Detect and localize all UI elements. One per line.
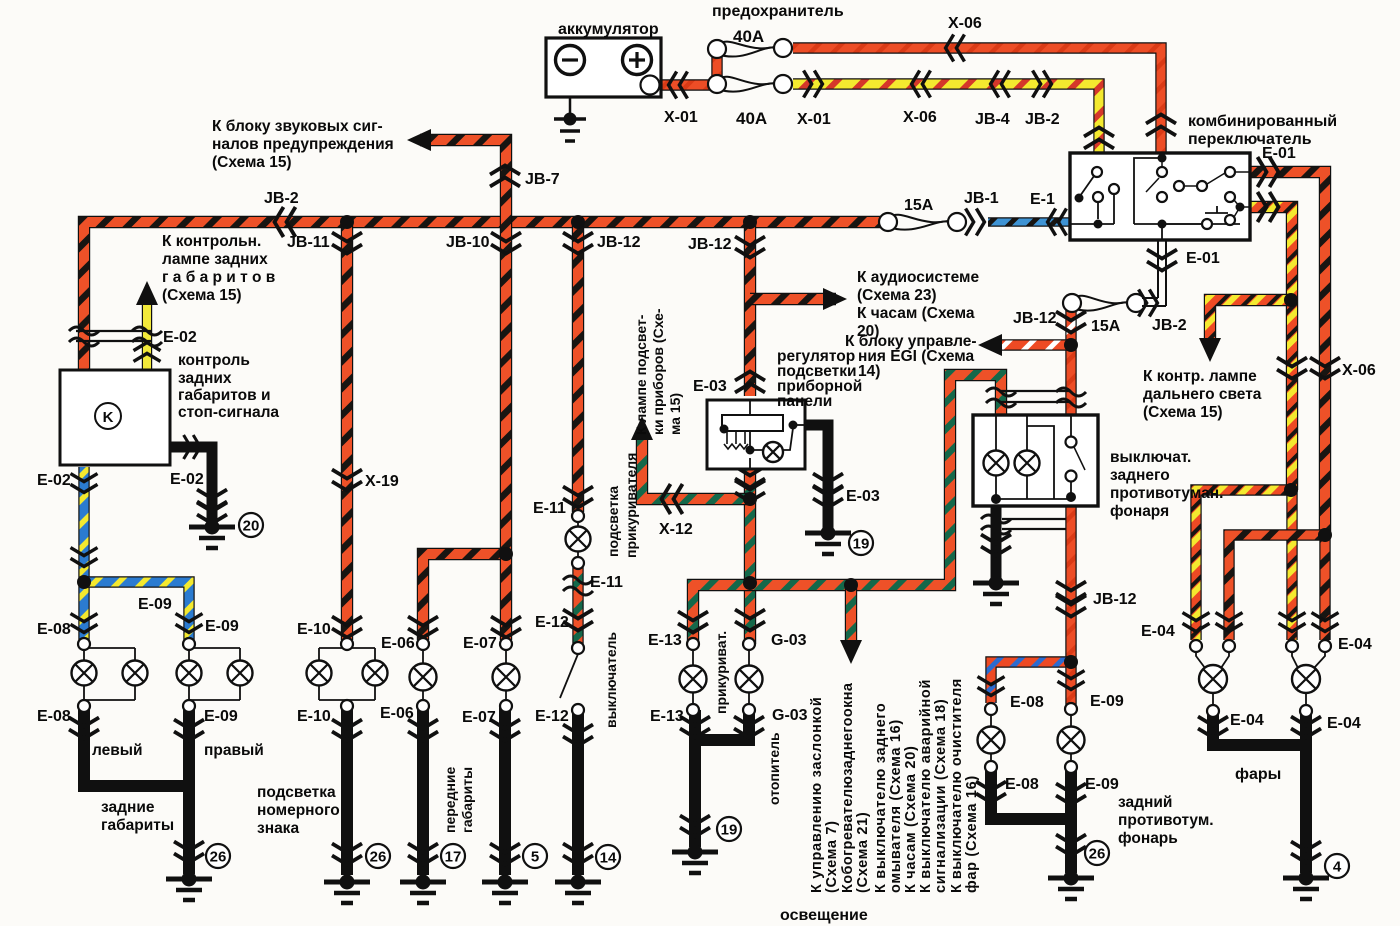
svg-text:знака: знака	[257, 820, 299, 837]
svg-text:К часам (Схема 20): К часам (Схема 20)	[903, 746, 919, 893]
svg-text:габариты: габариты	[459, 767, 475, 833]
svg-text:JB-12: JB-12	[688, 236, 732, 253]
svg-text:E-04: E-04	[1230, 712, 1264, 729]
svg-text:JB-12: JB-12	[1093, 591, 1137, 608]
svg-text:К управлению заслонкой: К управлению заслонкой	[809, 696, 825, 893]
svg-text:JB-2: JB-2	[1025, 111, 1060, 128]
svg-text:E-08: E-08	[37, 621, 71, 638]
svg-text:(Схема 15): (Схема 15)	[1143, 404, 1223, 421]
svg-text:(Схема 7): (Схема 7)	[824, 820, 840, 893]
svg-text:налов предупреждения: налов предупреждения	[212, 136, 394, 153]
svg-text:дальнего света: дальнего света	[1143, 386, 1262, 403]
svg-text:E-09: E-09	[1090, 693, 1124, 710]
svg-text:фары: фары	[1235, 766, 1281, 783]
svg-text:К выключателю аварийной: К выключателю аварийной	[918, 679, 934, 893]
svg-text:E-09: E-09	[1085, 776, 1119, 793]
svg-text:выключатель: выключатель	[603, 631, 619, 728]
svg-text:(Схема 21): (Схема 21)	[855, 812, 871, 893]
svg-text:E-10: E-10	[297, 621, 331, 638]
svg-text:К контрольн.: К контрольн.	[162, 233, 261, 250]
svg-text:отопитель: отопитель	[766, 732, 782, 805]
svg-text:E-04: E-04	[1338, 636, 1372, 653]
svg-text:ки приборов (Схе-: ки приборов (Схе-	[650, 308, 666, 435]
svg-text:14: 14	[600, 850, 617, 867]
svg-text:E-12: E-12	[535, 614, 569, 631]
svg-text:К часам (Схема: К часам (Схема	[857, 305, 975, 322]
svg-text:G-03: G-03	[772, 707, 808, 724]
svg-text:E-07: E-07	[463, 635, 497, 652]
svg-text:габаритов и: габаритов и	[178, 387, 271, 404]
svg-text:противотум.: противотум.	[1118, 812, 1214, 829]
svg-text:E-03: E-03	[846, 488, 880, 505]
svg-text:освещение: освещение	[780, 907, 868, 924]
svg-text:X-01: X-01	[664, 109, 698, 126]
svg-text:задних: задних	[178, 370, 232, 387]
svg-text:К выключателю очистителя: К выключателю очистителя	[949, 678, 965, 893]
svg-text:К блоку звуковых сиг-: К блоку звуковых сиг-	[212, 118, 383, 135]
svg-text:комбинированный: комбинированный	[1188, 113, 1337, 130]
svg-text:стоп-сигнала: стоп-сигнала	[178, 404, 279, 421]
svg-text:E-08: E-08	[1010, 694, 1044, 711]
svg-text:К лампе подсвет-: К лампе подсвет-	[633, 314, 649, 435]
svg-text:26: 26	[370, 849, 387, 866]
svg-text:20: 20	[243, 518, 260, 535]
svg-text:E-01: E-01	[1262, 145, 1296, 162]
svg-text:X-19: X-19	[365, 473, 399, 490]
svg-text:E-07: E-07	[462, 709, 496, 726]
svg-text:омывателя (Схема 16): омывателя (Схема 16)	[888, 719, 904, 893]
svg-text:E-02: E-02	[37, 472, 71, 489]
svg-text:(Схема 23): (Схема 23)	[857, 287, 937, 304]
svg-text:JB-1: JB-1	[964, 190, 999, 207]
svg-text:К аудиосистеме: К аудиосистеме	[857, 269, 979, 286]
svg-text:К выключателю заднего: К выключателю заднего	[873, 703, 889, 893]
svg-text:E-09: E-09	[138, 596, 172, 613]
svg-text:заднего: заднего	[1110, 467, 1170, 484]
svg-text:40A: 40A	[736, 109, 767, 128]
svg-text:прикуривателя: прикуривателя	[623, 453, 639, 558]
svg-text:E-10: E-10	[297, 708, 331, 725]
svg-text:выключат.: выключат.	[1110, 449, 1191, 466]
svg-text:номерного: номерного	[257, 802, 340, 819]
svg-text:JB-12: JB-12	[1013, 310, 1057, 327]
svg-text:передние: передние	[442, 766, 458, 833]
svg-text:подсветка: подсветка	[257, 784, 336, 801]
svg-text:прикуриват.: прикуриват.	[713, 631, 729, 714]
svg-text:Кобогревателюзаднегоокна: Кобогревателюзаднегоокна	[840, 682, 856, 893]
svg-text:E-12: E-12	[535, 708, 569, 725]
svg-text:E-02: E-02	[163, 329, 197, 346]
svg-text:E-06: E-06	[381, 635, 415, 652]
svg-text:г а б а р и т о в: г а б а р и т о в	[162, 269, 275, 286]
svg-text:фонарь: фонарь	[1118, 830, 1178, 847]
svg-text:JB-2: JB-2	[1152, 317, 1187, 334]
svg-text:E-04: E-04	[1141, 623, 1175, 640]
svg-text:15A: 15A	[904, 197, 934, 214]
svg-text:JB-12: JB-12	[597, 234, 641, 251]
svg-text:26: 26	[1089, 846, 1106, 863]
svg-text:X-01: X-01	[797, 111, 831, 128]
svg-text:17: 17	[445, 849, 462, 866]
svg-text:19: 19	[721, 822, 738, 839]
svg-text:JB-7: JB-7	[525, 171, 560, 188]
svg-text:панели: панели	[777, 393, 832, 410]
svg-text:E-03: E-03	[693, 378, 727, 395]
svg-text:К контр. лампе: К контр. лампе	[1143, 368, 1257, 385]
svg-text:X-06: X-06	[948, 15, 982, 32]
svg-text:E-08: E-08	[1005, 776, 1039, 793]
svg-text:JB-10: JB-10	[446, 234, 490, 251]
svg-text:E-13: E-13	[650, 708, 684, 725]
svg-text:E-13: E-13	[648, 632, 682, 649]
svg-text:19: 19	[853, 536, 870, 553]
svg-text:габариты: габариты	[101, 817, 174, 834]
svg-text:противотуман.: противотуман.	[1110, 485, 1223, 502]
svg-text:X-06: X-06	[1342, 362, 1376, 379]
svg-text:E-06: E-06	[380, 705, 414, 722]
svg-text:контроль: контроль	[178, 352, 250, 369]
svg-text:15A: 15A	[1091, 318, 1121, 335]
svg-text:40A: 40A	[733, 27, 764, 46]
svg-text:E-09: E-09	[204, 708, 238, 725]
svg-text:X-06: X-06	[903, 109, 937, 126]
svg-text:левый: левый	[92, 742, 143, 759]
svg-text:E-11: E-11	[533, 500, 566, 517]
svg-text:G-03: G-03	[771, 632, 807, 649]
svg-text:4: 4	[1333, 859, 1342, 876]
svg-text:X-12: X-12	[659, 521, 693, 538]
svg-text:E-02: E-02	[170, 471, 204, 488]
svg-text:задние: задние	[101, 799, 155, 816]
svg-text:предохранитель: предохранитель	[712, 3, 844, 20]
svg-text:26: 26	[210, 849, 227, 866]
svg-text:правый: правый	[204, 742, 264, 759]
svg-text:ма 15): ма 15)	[667, 393, 683, 435]
svg-text:E-11: E-11	[590, 574, 623, 591]
svg-text:E-04: E-04	[1327, 715, 1361, 732]
svg-text:E-1: E-1	[1030, 191, 1055, 208]
svg-text:E-08: E-08	[37, 708, 71, 725]
svg-text:сигнализации (Схема 18): сигнализации (Схема 18)	[933, 699, 949, 893]
svg-text:аккумулятор: аккумулятор	[558, 21, 659, 38]
svg-text:фар (Схема 16): фар (Схема 16)	[964, 775, 980, 893]
svg-text:E-01: E-01	[1186, 250, 1220, 267]
svg-text:JB-2: JB-2	[264, 190, 299, 207]
svg-text:(Схема 15): (Схема 15)	[212, 154, 292, 171]
svg-text:фонаря: фонаря	[1110, 503, 1169, 520]
svg-text:(Схема 15): (Схема 15)	[162, 287, 242, 304]
svg-text:JB-11: JB-11	[287, 234, 330, 251]
svg-text:5: 5	[531, 849, 539, 866]
svg-text:лампе задних: лампе задних	[162, 251, 268, 268]
svg-text:E-09: E-09	[205, 618, 239, 635]
svg-text:подсветка: подсветка	[605, 486, 621, 557]
svg-text:задний: задний	[1118, 794, 1172, 811]
svg-text:JB-4: JB-4	[975, 111, 1010, 128]
svg-text:K: K	[103, 409, 114, 426]
